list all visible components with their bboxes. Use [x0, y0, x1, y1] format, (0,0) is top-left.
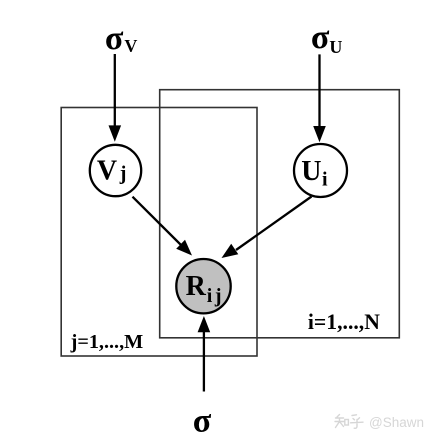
node R_ij (shaded circle)	[176, 259, 230, 313]
plate j=1..M (left rectangle)	[61, 108, 257, 357]
svg-text:σ: σ	[311, 19, 330, 56]
wire U_i to R_ij	[236, 197, 312, 251]
wire sigma_U to U_i	[318, 54, 320, 127]
label sigma_U	[311, 19, 343, 57]
svg-text:j=1,...,M: j=1,...,M	[70, 331, 144, 353]
svg-text:i: i	[322, 169, 328, 191]
wire sigma to R_ij	[203, 331, 205, 392]
wire sigma_V to V_j	[114, 54, 116, 127]
svg-text:i=1,...,N: i=1,...,N	[308, 310, 380, 334]
arrowhead into R_ij from sigma	[198, 316, 211, 332]
svg-text:@Shawn: @Shawn	[369, 415, 424, 430]
node U_i (circle)	[294, 144, 347, 197]
arrowhead into V_j	[109, 125, 122, 141]
svg-text:σ: σ	[105, 20, 124, 57]
svg-text:V: V	[97, 155, 117, 186]
svg-text:R: R	[186, 271, 207, 302]
wire V_j to R_ij	[133, 197, 184, 247]
node V_j (circle)	[90, 145, 141, 196]
svg-text:ij: ij	[207, 285, 224, 307]
svg-text:U: U	[301, 156, 321, 187]
plate i=1..N (right rectangle)	[160, 90, 400, 338]
svg-text:j: j	[119, 163, 127, 185]
svg-text:σ: σ	[193, 403, 212, 440]
arrowhead into R_ij from U_i	[222, 244, 239, 258]
watermark zhihu @Shawn	[335, 415, 363, 429]
svg-text:U: U	[329, 37, 342, 57]
label sigma_V	[105, 20, 137, 57]
arrowhead into U_i	[313, 126, 326, 142]
arrowhead into R_ij from V_j	[176, 240, 192, 256]
svg-text:V: V	[124, 36, 137, 56]
